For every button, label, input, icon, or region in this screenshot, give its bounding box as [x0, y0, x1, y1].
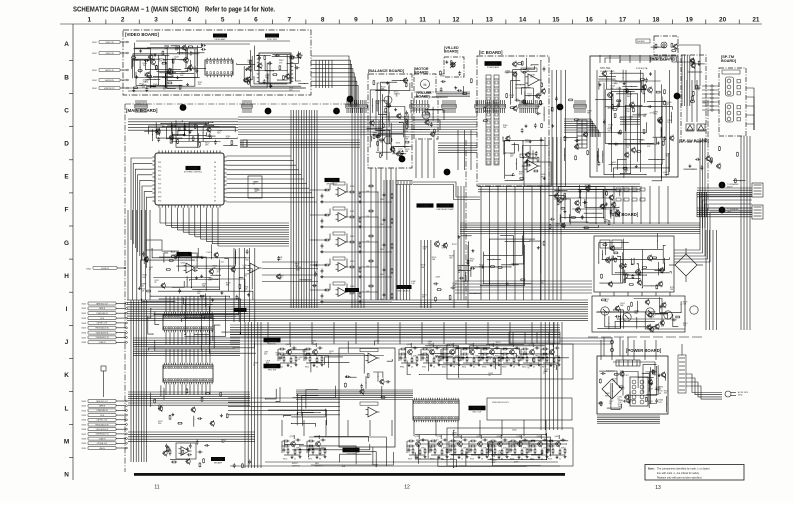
power transistor Q851 — [601, 307, 609, 315]
svg-text:K: K — [64, 372, 69, 379]
dipsw inner verticals — [686, 80, 688, 122]
stage Q455 — [478, 442, 483, 447]
balance pot VR402 — [384, 136, 392, 144]
IC302 label — [265, 34, 279, 41]
svg-text:VIDEO AMP: VIDEO AMP — [214, 38, 226, 41]
diode bridge D801 — [675, 254, 697, 276]
svg-text:F: F — [65, 207, 69, 214]
svg-text:POWER AMP: POWER AMP — [487, 66, 500, 69]
svg-text:Q465: Q465 — [640, 139, 645, 141]
verticals QFP to bottom — [233, 248, 235, 322]
svg-text:R331: R331 — [350, 211, 354, 213]
line amp box — [339, 348, 395, 447]
DIP IC403 — [163, 365, 213, 382]
volume pot — [422, 111, 430, 119]
bottom left bus — [128, 431, 255, 433]
svg-text:[VIDEO BOARD]: [VIDEO BOARD] — [125, 32, 159, 37]
connector under volume — [410, 104, 429, 108]
svg-text:15: 15 — [552, 17, 560, 24]
power connector — [616, 360, 640, 366]
svg-text:IC501: IC501 — [346, 448, 355, 452]
IC502 label — [469, 406, 486, 414]
svg-text:2: 2 — [121, 17, 125, 24]
svg-text:V500-508,510-513: V500-508,510-513 — [492, 402, 509, 404]
svg-text:IC502: IC502 — [472, 406, 481, 410]
svg-text:77: 77 — [214, 184, 216, 186]
stage Q407 — [510, 350, 515, 355]
svg-text:I: I — [66, 306, 68, 313]
transistor Q704 — [658, 118, 663, 123]
right area cluster — [734, 177, 736, 180]
switch group box lower — [447, 428, 573, 466]
wires phono to opamp column — [262, 261, 318, 263]
svg-text:R131: R131 — [186, 71, 191, 73]
border left rule — [72, 24, 74, 480]
svg-text:21: 21 — [752, 17, 760, 24]
power transistor Q855 — [690, 306, 698, 314]
svg-text:29: 29 — [217, 272, 219, 274]
svg-text:44: 44 — [609, 403, 611, 405]
stage Q402 — [408, 350, 413, 355]
bus row C second band — [240, 139, 360, 141]
power exit wires bottom — [597, 415, 660, 417]
svg-text:R324: R324 — [382, 83, 387, 85]
small box right of QFP — [248, 176, 262, 198]
relay box — [487, 398, 572, 420]
svg-text:H: H — [64, 273, 69, 280]
power output stage box — [592, 296, 685, 332]
svg-text:IC301: IC301 — [215, 34, 224, 38]
svg-text:P35: P35 — [158, 166, 161, 168]
svg-text:8: 8 — [321, 17, 325, 24]
transistor Q801 — [558, 198, 563, 203]
relay RY801 — [600, 240, 610, 248]
circled 2 — [265, 108, 272, 115]
DIP IC402 — [163, 314, 213, 330]
svg-text:60Hz: 60Hz — [738, 395, 742, 397]
svg-text:L: L — [65, 405, 69, 412]
svg-text:49: 49 — [513, 367, 515, 369]
IC305 IC306 label pair — [417, 203, 434, 207]
circled 6 — [399, 156, 406, 163]
svg-text:P97: P97 — [158, 188, 161, 190]
routing right of DIP2 — [228, 397, 340, 399]
svg-text:P32: P32 — [158, 171, 161, 173]
svg-text:62: 62 — [533, 367, 535, 369]
video board right bus exit — [311, 56, 349, 107]
IC302 dip — [259, 53, 291, 83]
cluster above ic board — [457, 90, 459, 92]
stage Q459 — [556, 442, 561, 447]
stage Q401 — [313, 350, 318, 355]
board box MOTOR BOARD — [414, 74, 436, 92]
svg-text:P78: P78 — [158, 192, 161, 194]
svg-text:63: 63 — [214, 201, 216, 203]
svg-text:27: 27 — [214, 175, 216, 177]
relay block — [509, 332, 560, 343]
svg-text:LINE IN: LINE IN — [99, 448, 105, 450]
stage Q456 — [498, 442, 503, 447]
svg-text:CN310: CN310 — [81, 448, 86, 450]
LED D401 — [451, 63, 455, 67]
svg-text:SW: SW — [238, 313, 241, 315]
mid right vertical bundle — [540, 322, 542, 430]
svg-text:C942: C942 — [619, 118, 624, 120]
stm upper stage cluster — [575, 201, 579, 205]
vertical bundle below balance — [370, 168, 372, 300]
power transistor Q854 — [664, 311, 672, 319]
svg-text:CN301: CN301 — [81, 308, 86, 310]
svg-text:Q736: Q736 — [437, 436, 442, 438]
opamp M row box — [176, 443, 196, 459]
bus below connector row — [238, 116, 477, 118]
svg-text:12: 12 — [452, 17, 460, 24]
svg-text:R992: R992 — [482, 367, 486, 369]
DIP IC502 bottom — [413, 400, 459, 420]
stage Q453 — [438, 442, 443, 447]
svg-text:Q630: Q630 — [286, 344, 291, 346]
svg-text:Q641: Q641 — [555, 436, 560, 438]
svg-text:11: 11 — [154, 485, 159, 491]
stm right wires to connectors — [674, 196, 752, 250]
svg-text:Q538: Q538 — [407, 344, 412, 346]
svg-text:C340: C340 — [380, 199, 384, 201]
svg-text:R333: R333 — [350, 261, 354, 263]
power amp block STK box — [590, 56, 678, 177]
svg-text:40: 40 — [396, 95, 398, 97]
circled 5 — [674, 93, 681, 100]
wires power to stm — [603, 337, 605, 356]
headphone jack — [661, 42, 667, 48]
svg-text:66: 66 — [253, 184, 255, 186]
svg-text:5: 5 — [221, 17, 225, 24]
svg-text:R884: R884 — [400, 367, 404, 369]
ic board output wires right — [478, 183, 640, 185]
board box DIP-SW BOARD — [681, 55, 706, 142]
svg-text:74: 74 — [617, 399, 619, 401]
mid bus horizontal — [127, 299, 588, 301]
svg-text:A: A — [64, 41, 69, 48]
svg-text:CN305: CN305 — [81, 424, 86, 426]
second opamp col feedback wires — [383, 180, 385, 300]
IC404 label — [184, 166, 203, 174]
svg-text:[POWER BOARD]: [POWER BOARD] — [626, 348, 662, 353]
power transistor Q852 — [623, 313, 631, 321]
center sparse verticals — [465, 140, 467, 300]
svg-text:1: 1 — [88, 17, 92, 24]
svg-text:VIDEO-2 IN: VIDEO-2 IN — [106, 53, 114, 55]
board box POWER BOARD — [597, 356, 668, 414]
svg-text:6: 6 — [254, 17, 258, 24]
left edge bus verticals — [127, 210, 129, 300]
svg-text:D: D — [64, 141, 69, 148]
bus to power board — [230, 337, 612, 339]
svg-text:C685: C685 — [645, 372, 650, 374]
verticals between rows — [267, 322, 269, 344]
bottom long rail — [230, 465, 560, 467]
svg-text:56: 56 — [481, 459, 483, 461]
svg-text:SCHEMATIC DIAGRAM − 1 (MAIN S: SCHEMATIC DIAGRAM − 1 (MAIN SECTION) — [73, 7, 199, 14]
switch group box upper — [447, 344, 573, 379]
main board left edge — [124, 104, 126, 472]
power board misc — [623, 400, 625, 402]
svg-text:M: M — [64, 438, 69, 445]
stk internal rails — [596, 70, 598, 172]
power board top wires — [600, 340, 602, 360]
long horizontals under mid — [230, 329, 560, 331]
wires below DIP2 — [128, 391, 250, 393]
svg-text:IC401: IC401 — [179, 252, 188, 256]
svg-text:72: 72 — [214, 196, 216, 198]
IC301 label — [213, 34, 227, 41]
svg-text:P35: P35 — [158, 201, 161, 203]
svg-text:IC406: IC406 — [213, 457, 222, 461]
svg-text:REC OUT: REC OUT — [473, 412, 483, 414]
fuse box — [101, 366, 106, 371]
video board top bus — [136, 40, 290, 42]
svg-text:16: 16 — [586, 17, 594, 24]
QFP fanout bottom — [159, 208, 161, 224]
svg-text:22: 22 — [461, 459, 463, 461]
op-amp stage 1 — [338, 188, 346, 197]
board box VIDEO BOARD — [123, 30, 311, 95]
svg-text:P61: P61 — [158, 162, 161, 164]
svg-text:58: 58 — [214, 162, 216, 164]
svg-text:IC402: IC402 — [267, 338, 276, 342]
op-amp U601a — [528, 74, 539, 86]
bus stk top span — [620, 116, 640, 118]
motor M401 — [421, 80, 430, 89]
svg-text:61: 61 — [473, 367, 475, 369]
svg-text:VIDEO: VIDEO — [92, 42, 98, 44]
stk bottom exit — [595, 186, 597, 224]
svg-text:98: 98 — [453, 367, 455, 369]
L wire pair to line select — [413, 182, 480, 197]
balance pot VR401 — [384, 96, 392, 104]
svg-text:IC502: IC502 — [420, 204, 429, 208]
fuse ladder — [678, 355, 686, 393]
svg-text:15: 15 — [433, 367, 435, 369]
svg-text:12: 12 — [404, 485, 410, 491]
svg-text:46: 46 — [316, 367, 318, 369]
border top rule — [60, 23, 762, 25]
stage Q452 — [416, 442, 421, 447]
stage Q400 — [287, 350, 292, 355]
bus feeding power stage — [455, 280, 592, 282]
svg-text:Q668: Q668 — [312, 344, 317, 346]
left vertical bundle bottom — [244, 322, 246, 468]
QFP top components — [231, 139, 233, 142]
svg-text:24: 24 — [648, 391, 650, 393]
circled 4 — [557, 104, 564, 111]
svg-text:Refer to page 14 for Note.: Refer to page 14 for Note. — [205, 7, 275, 14]
svg-text:P41: P41 — [158, 175, 161, 177]
transistor Q302 — [168, 70, 173, 75]
svg-text:39: 39 — [214, 171, 216, 173]
svg-text:LINE SELECT AMP: LINE SELECT AMP — [436, 208, 454, 211]
svg-text:42: 42 — [214, 179, 216, 181]
svg-text:IC302: IC302 — [267, 34, 276, 38]
sp-tm wires right exit — [746, 88, 754, 130]
horiz link balance to ic board — [438, 142, 477, 144]
svg-text:18: 18 — [652, 17, 660, 24]
stage Q458 — [538, 442, 543, 447]
op-amp IC501a — [368, 353, 377, 363]
svg-text:VIDEO: VIDEO — [92, 88, 98, 90]
phono opamp 1 — [186, 263, 195, 273]
svg-text:CN305: CN305 — [81, 328, 86, 330]
verticals right of stm — [705, 230, 707, 330]
transistor Q301 — [151, 60, 156, 65]
svg-text:19: 19 — [686, 17, 694, 24]
stage Q451 — [316, 442, 321, 447]
svg-text:87: 87 — [245, 276, 247, 278]
svg-text:CN304: CN304 — [81, 420, 86, 422]
left long verticals — [130, 300, 132, 462]
svg-text:D762: D762 — [181, 263, 186, 265]
video board bottom rail — [128, 87, 306, 89]
crystal X401 — [243, 140, 247, 147]
svg-text:[H/P BOARD]: [H/P BOARD] — [650, 57, 677, 62]
power transistor Q853 — [646, 308, 654, 316]
svg-text:R152: R152 — [283, 459, 287, 461]
vertical bundle right of volume — [457, 130, 459, 170]
svg-text:CN602: CN602 — [86, 269, 91, 271]
svg-text:C343: C343 — [380, 274, 384, 276]
svg-text:CN304: CN304 — [81, 323, 86, 325]
transistor Q802 — [576, 208, 581, 213]
svg-text:L151: L151 — [220, 262, 224, 264]
stm bottom thick dashed bar — [588, 336, 702, 338]
svg-text:B: B — [64, 74, 69, 81]
svg-text:CN300: CN300 — [81, 401, 86, 403]
verticals feeding bottom row — [281, 420, 283, 436]
svg-text:IC303: IC303 — [327, 178, 336, 182]
svg-text:R503: R503 — [430, 459, 434, 461]
svg-text:34: 34 — [398, 150, 400, 152]
video board circuitry left — [187, 46, 190, 48]
svg-text:SYSTEM CONTROL: SYSTEM CONTROL — [184, 172, 203, 174]
wires sp area down — [699, 138, 701, 228]
svg-text:R233: R233 — [396, 143, 401, 145]
routing above DIPs — [202, 314, 249, 351]
resistors left of opamp — [167, 446, 169, 447]
svg-text:IC403: IC403 — [267, 364, 276, 368]
mid bus horizontal 2 — [230, 324, 560, 326]
stm transistors — [606, 258, 611, 263]
svg-text:9: 9 — [354, 17, 358, 24]
svg-text:7: 7 — [288, 17, 292, 24]
transistor Q304 — [146, 73, 151, 78]
board box SP-TM BOARD — [719, 68, 746, 136]
svg-text:80: 80 — [149, 269, 151, 271]
svg-text:13: 13 — [655, 485, 661, 491]
bridge rectifier — [602, 379, 622, 399]
svg-text:C709: C709 — [616, 88, 621, 90]
svg-text:45: 45 — [419, 459, 421, 461]
resistor ladder 2 — [494, 75, 499, 165]
svg-text:61: 61 — [142, 286, 144, 288]
svg-text:R478: R478 — [542, 367, 546, 369]
stage Q404 — [450, 350, 455, 355]
circled 8 — [719, 182, 726, 189]
svg-text:R490: R490 — [522, 367, 526, 369]
svg-text:20: 20 — [719, 17, 727, 24]
circled 7 — [444, 169, 451, 176]
verticals below connector — [396, 185, 398, 301]
transistor Q701 — [608, 93, 613, 98]
svg-text:R221: R221 — [548, 459, 552, 461]
svg-text:MONITOR OUT: MONITOR OUT — [104, 88, 115, 90]
svg-text:CN309: CN309 — [81, 443, 86, 445]
svg-text:L424: L424 — [256, 190, 260, 192]
dashdot vertical right — [707, 100, 709, 215]
vertical bundle volume down — [415, 140, 417, 178]
circled 5 mid — [347, 96, 354, 103]
diode row 1 — [616, 188, 621, 191]
note box — [645, 465, 744, 481]
svg-text:10: 10 — [386, 17, 394, 24]
svg-text:TUNER MED IN: TUNER MED IN — [96, 313, 108, 315]
wires stm to power rows — [599, 292, 601, 296]
bus to dip — [296, 389, 413, 391]
stage Q454 — [458, 442, 463, 447]
svg-text:21: 21 — [559, 459, 561, 461]
svg-text:95: 95 — [611, 164, 613, 166]
stk top entry wires — [599, 55, 601, 63]
AC cord wires — [686, 374, 722, 393]
speaker terminal group 2 — [726, 103, 734, 122]
svg-text:TUNER MED IN: TUNER MED IN — [96, 410, 108, 412]
svg-text:CN301: CN301 — [81, 406, 86, 408]
svg-text:IC503: IC503 — [440, 204, 449, 208]
svg-text:4: 4 — [188, 17, 192, 24]
svg-text:AC IN 120V: AC IN 120V — [738, 391, 749, 394]
svg-text:P59: P59 — [158, 184, 161, 186]
svg-text:L375: L375 — [624, 375, 628, 377]
left vertical bundle to stm — [540, 137, 542, 300]
op-amp box ic board bottom — [524, 162, 551, 186]
svg-text:94: 94 — [639, 141, 641, 143]
transistor Q703 — [648, 88, 653, 93]
IC501 label — [343, 448, 360, 456]
diode row 2 — [616, 198, 621, 201]
svg-text:11: 11 — [419, 17, 426, 24]
bus row C left part — [128, 118, 238, 120]
svg-text:99: 99 — [214, 188, 216, 190]
svg-text:48: 48 — [666, 155, 668, 157]
right vertical wires — [740, 136, 742, 330]
right connector tall 1 — [752, 183, 763, 197]
svg-text:R774: R774 — [308, 459, 312, 461]
svg-text:[BALANCE BOARD]: [BALANCE BOARD] — [368, 69, 405, 73]
svg-text:14: 14 — [519, 17, 527, 24]
stage Q403 — [430, 350, 435, 355]
svg-text:R147: R147 — [442, 367, 446, 369]
hp to stk wires — [620, 55, 666, 63]
svg-text:C: C — [64, 107, 69, 114]
phono section label IC401 — [176, 252, 192, 260]
stage Q450 — [291, 442, 296, 447]
bus right of IC board — [564, 119, 591, 137]
svg-text:VIDEO: VIDEO — [92, 70, 98, 72]
svg-text:STK-7E1: STK-7E1 — [600, 66, 611, 70]
stage Q405 — [470, 350, 475, 355]
svg-text:PHONO IN: PHONO IN — [101, 268, 110, 270]
stage Q408 — [530, 350, 535, 355]
stage Q406 — [490, 350, 495, 355]
svg-text:REC SELECT: REC SELECT — [398, 290, 411, 292]
